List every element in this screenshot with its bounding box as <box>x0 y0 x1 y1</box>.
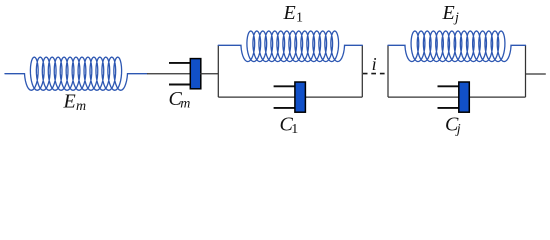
svg-text:m: m <box>180 97 190 112</box>
dashpot Cm <box>169 59 201 89</box>
spring E1 <box>218 31 362 62</box>
wire element 1 right vertical <box>361 45 363 97</box>
spring Em <box>5 57 147 90</box>
svg-text:m: m <box>76 99 86 114</box>
wire element 1 left vertical <box>217 45 219 97</box>
wire element 1 bottom branch <box>218 96 362 98</box>
svg-text:1: 1 <box>296 11 303 26</box>
svg-text:1: 1 <box>291 122 298 137</box>
svg-text:E: E <box>283 2 296 24</box>
wire dashed connector <box>363 73 385 75</box>
svg-text:i: i <box>372 54 377 74</box>
wire Cm to element 1 <box>200 73 218 75</box>
spring Ej <box>388 31 526 62</box>
svg-text:E: E <box>442 2 455 24</box>
wire output <box>526 73 546 75</box>
svg-text:E: E <box>63 91 76 113</box>
wire element j left vertical <box>387 45 389 97</box>
wire element j bottom branch <box>388 96 526 98</box>
dashpot C1 <box>274 82 306 112</box>
wire element j right vertical <box>525 45 527 97</box>
wire Em to Cm <box>147 73 191 75</box>
dashpot Cj <box>438 82 470 112</box>
